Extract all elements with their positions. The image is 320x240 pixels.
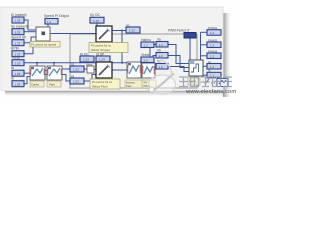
wire PID node output into loop to Iq PI xyxy=(50,33,96,35)
wire Id terminal to Id PI xyxy=(84,75,96,82)
control PWM Period (Ticks) xyxy=(168,29,196,38)
svg-text:1.2: 1.2 xyxy=(47,20,52,24)
tiny value text bottom right xyxy=(211,81,216,85)
svg-text:1.23: 1.23 xyxy=(73,68,79,72)
svg-text:1.23: 1.23 xyxy=(93,19,99,23)
wire Speed SP to PID node xyxy=(24,37,36,43)
control RPM xyxy=(11,47,24,57)
indicator PWM2 xyxy=(207,38,221,47)
wire stub to PWM2 xyxy=(201,44,208,46)
svg-text:Ib: Ib xyxy=(11,77,14,81)
label Inverse Park xyxy=(125,80,143,88)
svg-text:Park: Park xyxy=(49,82,55,86)
svg-text:40: 40 xyxy=(187,34,191,38)
screenshot drop shadow right xyxy=(223,13,232,97)
label PI control for Id (Motor Flux) xyxy=(90,79,120,89)
svg-text:1.23: 1.23 xyxy=(99,58,105,62)
label SVPWM xyxy=(142,80,156,88)
page background xyxy=(0,0,240,104)
label PI control for speed xyxy=(30,42,60,48)
subVI SVPWM icon xyxy=(142,63,155,78)
svg-text:Kp (speed): Kp (speed) xyxy=(11,25,28,29)
svg-text:Ki (speed): Ki (speed) xyxy=(11,13,26,17)
svg-text:1.2: 1.2 xyxy=(159,54,164,58)
wire stub to PWM3 xyxy=(201,55,208,57)
indicator Iq SP xyxy=(126,23,140,33)
control Kp DC xyxy=(90,13,104,23)
label under FPGA IO node xyxy=(188,78,200,85)
wire vertical bus right side xyxy=(200,32,202,60)
svg-text:(Motor Flux): (Motor Flux) xyxy=(92,84,108,88)
wires inverse Park to SVPWM icon xyxy=(141,67,142,73)
control Kp (speed) xyxy=(11,25,28,35)
wire Theta long horizontal xyxy=(24,62,151,64)
wire Va to FPGA IO node xyxy=(168,45,189,64)
indicator Valpha xyxy=(141,38,154,47)
svg-text:Speed PI Output: Speed PI Output xyxy=(44,14,69,18)
svg-text:1.2: 1.2 xyxy=(210,31,215,35)
PID node U1 speed PI xyxy=(36,27,50,41)
svg-text:1.2: 1.2 xyxy=(210,43,215,47)
label PI control for Iq (Motor Torque) xyxy=(89,43,128,53)
small icon box bottom right xyxy=(217,79,228,87)
svg-text:1.23: 1.23 xyxy=(15,72,21,76)
FPGA IO node PWM generation xyxy=(189,60,203,76)
indicator Va xyxy=(156,38,168,47)
control Ia xyxy=(11,66,24,76)
wire Kp DC down into Iq PI xyxy=(96,23,98,26)
svg-text:1.23: 1.23 xyxy=(73,80,79,84)
svg-text:1.23: 1.23 xyxy=(15,61,21,65)
svg-text:Speed SP: Speed SP xyxy=(11,36,27,40)
big while-loop rectangle xyxy=(70,34,197,88)
wire up to Vb box xyxy=(153,56,156,64)
svg-text:1.2: 1.2 xyxy=(159,65,164,69)
wire RPM feedback to PID node xyxy=(24,41,33,54)
svg-text:1.23: 1.23 xyxy=(15,41,21,45)
svg-text:1.2: 1.2 xyxy=(159,43,164,47)
svg-text:Ia: Ia xyxy=(11,66,14,70)
junction dot x122 top xyxy=(121,30,123,32)
svg-text:1.23: 1.23 xyxy=(15,82,21,86)
svg-text:1.23: 1.23 xyxy=(15,30,21,34)
small pen glyph bottom right xyxy=(205,79,209,84)
wire Kp(speed) to PID node xyxy=(24,31,36,33)
terminal Id xyxy=(70,74,84,84)
wire theta stub to Clarke xyxy=(36,63,38,66)
wire FPGA node to Ib out xyxy=(203,74,207,76)
wire PWM Period down to FPGA IO node xyxy=(189,38,191,60)
wire theta stub to Park xyxy=(53,63,55,66)
svg-text:Inverse: Inverse xyxy=(126,81,135,85)
svg-text:1.23: 1.23 xyxy=(83,58,89,62)
control Theta xyxy=(11,56,24,66)
indicator Speed PI Output xyxy=(44,14,69,24)
wire Vb to FPGA IO node xyxy=(168,56,189,68)
indicator PWM1 xyxy=(207,26,221,35)
watermark circle logo xyxy=(149,60,176,94)
junction dot theta-invPark xyxy=(134,62,136,64)
wire Id PI output to inverse Park xyxy=(112,69,127,71)
subVI inverse Park icon xyxy=(127,62,141,78)
indicator PWM3 xyxy=(207,49,221,58)
watermark chinese glyphs xyxy=(179,77,232,87)
terminal Iq xyxy=(70,62,84,72)
wire vertical branch at x=122 xyxy=(121,31,123,63)
wire Iq terminal to subtract node xyxy=(84,68,87,70)
watermark text xyxy=(185,89,236,95)
wire Park to Iq terminal xyxy=(62,68,70,70)
wire up to Va box xyxy=(150,45,156,64)
wire to Vc box xyxy=(155,66,156,68)
wire Park to Id terminal xyxy=(62,75,70,82)
subVI Clarke transform icon xyxy=(30,66,45,80)
junction dot x122 bottom xyxy=(121,62,123,64)
control Ib xyxy=(11,77,24,87)
svg-text:1.2: 1.2 xyxy=(144,58,149,62)
wire stub to PWM1 xyxy=(201,31,208,33)
junction dot theta-Park xyxy=(53,62,55,64)
wire Iq PI output to Iq SP indicator xyxy=(112,30,126,32)
indicator Ib out xyxy=(207,69,221,78)
label Park xyxy=(47,81,61,87)
indicator Ia out xyxy=(207,60,221,69)
svg-text:(Motor Torque): (Motor Torque) xyxy=(91,48,110,52)
svg-text:Clarke: Clarke xyxy=(31,82,40,86)
svg-text:www.elecfans.com: www.elecfans.com xyxy=(185,89,236,95)
subtract node xyxy=(86,62,94,73)
control Speed SP xyxy=(11,36,27,46)
subVI U2 PI control Iq (pencil icon) xyxy=(96,26,112,42)
junction dot theta-Clarke xyxy=(36,62,38,64)
screenshot drop shadow bottom xyxy=(5,91,224,98)
subVI U3 PI control Id (pencil icon) xyxy=(96,62,112,78)
indicator Vc xyxy=(156,60,168,69)
wire Ib to Clarke xyxy=(24,77,30,84)
wire PID node up to Speed PI Output indicator xyxy=(47,24,49,27)
svg-text:Park: Park xyxy=(126,84,132,88)
svg-text:1.2: 1.2 xyxy=(210,65,215,69)
indicator Vb xyxy=(156,49,168,58)
control Ki (speed) xyxy=(11,13,26,23)
wire Vc to FPGA IO node xyxy=(168,67,189,72)
wire FPGA node to Ia out xyxy=(203,65,207,67)
label Clarke xyxy=(30,81,44,87)
wire Ki(speed) to PID node xyxy=(24,20,36,30)
svg-text:PI control for speed: PI control for speed xyxy=(31,43,56,47)
indicator Vbeta xyxy=(141,53,154,62)
svg-text:1.23: 1.23 xyxy=(15,19,21,23)
svg-text:RPM: RPM xyxy=(11,47,19,51)
wires Clarke to Park xyxy=(45,71,47,75)
subVI Park transform icon xyxy=(47,66,62,80)
svg-text:1.2: 1.2 xyxy=(210,54,215,58)
svg-text:Kp DC: Kp DC xyxy=(90,13,101,17)
wire Ia to Clarke xyxy=(24,72,30,74)
control Id SP xyxy=(96,52,110,62)
svg-text:Theta: Theta xyxy=(11,56,20,60)
control Ki DC xyxy=(80,52,94,62)
svg-text:1.23: 1.23 xyxy=(129,29,135,33)
diagram background panel xyxy=(1,7,223,91)
wire subtract node to Id PI xyxy=(94,69,96,71)
svg-text:SV: SV xyxy=(144,81,148,85)
svg-text:1.2: 1.2 xyxy=(144,43,149,47)
